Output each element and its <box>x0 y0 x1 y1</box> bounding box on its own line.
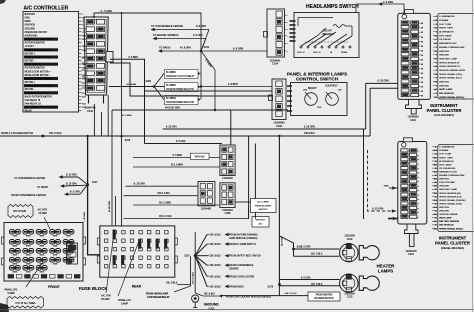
wire 9 .8 BRN to C206 <box>201 86 272 88</box>
wire ground fan branch 4 (FROM CONVENIENCE) <box>195 256 207 266</box>
headlamp switch mech dashes <box>305 41 348 43</box>
wire 150 2 2 BLK long run <box>0 135 370 137</box>
wire ground fan branch 6 (FROM RADIO) <box>195 256 207 287</box>
wire vertical x230.8 into C282 <box>230 110 232 145</box>
fuse block front bottom terminal row <box>8 275 80 279</box>
wire S210 diagonal to 44 DK GRN run (9 .8 BRN) <box>201 51 215 110</box>
cluster gas top tab <box>405 10 414 14</box>
wire S278 to lamp socket 2 (8 .5 GRA) <box>279 279 339 281</box>
wire into cluster second <box>370 87 397 89</box>
wire C232 right to C206 upper (9 .5 BRN) <box>110 59 272 143</box>
wire to lamp socket 2 lower (150 .5 BLK) <box>279 285 339 287</box>
connector C208 12034461 body <box>220 183 235 208</box>
wire vertical to diesel cluster solid <box>363 129 365 219</box>
label 50 2 2 BRN FROM BLOWER SWITCH box <box>251 199 277 213</box>
lamp bulb heater lamp 2 <box>359 276 379 290</box>
connector C206 latch tab <box>269 95 273 101</box>
wire from A/C clutch relay (50 .8 BRN) <box>154 74 164 87</box>
frame corner mark top-left <box>0 0 6 4</box>
wire from blower relay 2 (50 .8 BRN) <box>154 87 164 100</box>
pointer lines to rear fuses <box>106 234 114 293</box>
wire S307 to ground G202 <box>194 256 196 293</box>
wire TO RADIO (B .25 GRA) <box>60 184 64 187</box>
connector C206 cells <box>276 81 282 117</box>
wire S210 to headlamp switch connector C204 (B .8 ORN) <box>201 50 267 52</box>
wire 150 2 0 BLK to ground <box>222 295 308 297</box>
connector 12034481 cells <box>200 184 212 204</box>
connector C208 cells <box>222 185 233 205</box>
node top run junction <box>121 12 123 14</box>
wire 150 2 2 BLK into 12034481 <box>124 195 199 197</box>
wire into diesel cluster thick <box>388 218 398 220</box>
wire C232 pin A to S210 (A .5 GRN) <box>94 13 201 51</box>
cluster diesel pin label list <box>432 146 466 231</box>
rheostat COURTESY <box>326 93 339 106</box>
pointer line to PANEL LPS fuse <box>26 262 43 288</box>
node S217 <box>86 183 89 186</box>
label FROM HEATER BLOWER MOTOR box <box>308 292 340 301</box>
ground symbol G202 <box>192 295 199 302</box>
wire into cluster (8 .25 ORN) <box>366 82 398 84</box>
frame corner mark bottom-left <box>0 303 9 312</box>
cluster gas cells <box>401 21 418 97</box>
cluster gas pin label list <box>433 15 465 99</box>
wire 8 .5 GRA to C282 <box>145 143 223 145</box>
wires A/C controller pins to C232 <box>82 57 86 59</box>
fuse block rear terminals grid <box>105 231 169 268</box>
wire to engine harness (A .8 ORN) <box>201 39 206 52</box>
cluster diesel pin label list box <box>438 145 474 232</box>
wire S307 up <box>194 232 196 256</box>
cluster gas pin numbers column <box>419 23 424 97</box>
wire below blower switch box <box>254 213 256 219</box>
fuse block rear view body <box>100 226 175 277</box>
connector C204 body <box>267 9 285 57</box>
wire ground fan branch 3 (FROM SAFETY BELT SWITCH) <box>195 255 207 257</box>
rheostat BRIGHT <box>305 93 318 106</box>
wire C232 to S281 (50 .8 BRN) <box>109 86 154 88</box>
wire ground fan branch 1 (FROM DAYTIME RUNNING) <box>195 235 207 256</box>
wire dashed to diesel cluster (A .25 GRA) <box>368 150 398 211</box>
cluster diesel plug legs <box>405 224 419 234</box>
wire C232 right leg down <box>107 95 109 136</box>
panel lamps switch box <box>291 83 348 116</box>
label WITHOUT A/C box <box>252 217 269 228</box>
wire C232 tab to C206 lower <box>110 63 272 96</box>
wire 50 1.0 BRN into C282 <box>133 166 220 168</box>
wire vertical rise to cluster 2 <box>369 88 371 136</box>
node S278 <box>278 283 281 286</box>
connector C232 legs <box>88 95 90 104</box>
cluster gas pin label list box <box>438 14 474 100</box>
wire x121.5 full drop to rear fuse block <box>121 13 123 226</box>
wire vertical x255.4 into blower switch box <box>254 144 256 199</box>
pointer line to A/C HTR fuse <box>44 217 50 229</box>
A/C controller U1 pin name rows <box>24 13 87 113</box>
wire vertical to S307 from headlamp relay <box>190 256 192 286</box>
wire C208 right to blower switch label <box>235 201 250 203</box>
node S263 <box>292 248 295 251</box>
wire heater lamp feed vertical 112 2 BLK <box>278 136 280 285</box>
connector C232 side tab <box>106 52 113 63</box>
wire B .25 GRA into 12034481 <box>126 185 199 187</box>
wire FROM CONVENIENCE CENTER (B .5 ORN) <box>64 193 68 196</box>
node S281 <box>153 85 156 88</box>
wire S217/S218 trunk down to rear fuse block (heavy) <box>88 136 100 255</box>
connector C206 body <box>272 79 286 120</box>
connector C204 pin ticks <box>285 15 289 53</box>
wire diagonal branch to S263 <box>279 236 293 249</box>
cluster gas screw hole <box>402 14 407 19</box>
HOT AT ALL TIMES tag <box>7 297 43 309</box>
connector C232 body (tapered) <box>84 17 108 95</box>
instrument panel cluster gas connector body <box>398 13 431 99</box>
connector C282 12034482 body <box>220 145 235 176</box>
frame right edge line <box>472 0 474 312</box>
wire into diesel cluster (34 GRA) <box>389 187 398 189</box>
wire from blower relay 1 (50 .8 BRN) <box>154 86 165 88</box>
wire from low coolant module <box>195 293 203 296</box>
wire S210 down to S281 row <box>200 51 202 99</box>
lamp bulb heater lamp 1 <box>359 246 379 260</box>
wire 150 .8 BLK label <box>177 284 190 286</box>
fuse block rear installed fuses <box>113 230 167 265</box>
wire C232 left leg down <box>93 104 95 136</box>
wire vertical x248.6 <box>248 136 250 219</box>
wire to radio (40 .8 ORN) <box>158 49 162 52</box>
wire 150 2 2 BLK lower <box>124 208 249 219</box>
cluster diesel top tab <box>404 138 413 142</box>
instrument panel cluster diesel connector body <box>398 142 427 225</box>
node S307 ground junction <box>194 254 197 257</box>
wire TO CONVENIENCE CENTER (B .25 GRA) <box>59 175 63 178</box>
fuse block rear side tabs <box>97 238 100 245</box>
headlamp switch contacts and wipers <box>300 26 352 48</box>
A/C controller U1 box <box>23 12 79 113</box>
wire 9 .5 BRN into C282 with WITH A/C tag <box>133 157 220 159</box>
wire drop x115.5 to rear fuse block <box>115 196 117 226</box>
wire headlamps box top to cluster (A .5 GRN) <box>356 4 404 14</box>
frame bottom edge line <box>0 309 474 311</box>
wire 8 .25 ORN long run <box>163 128 366 130</box>
wire 44 B DK GRN <box>112 109 288 111</box>
cluster diesel screw hole <box>402 143 406 147</box>
headlamps switch box <box>294 13 359 58</box>
headlamps switch left pins <box>290 21 296 41</box>
fuse block front fuses grid <box>10 230 74 274</box>
wire A/C controller bottom down <box>101 112 103 136</box>
connector C204 cells <box>276 11 282 55</box>
wire S263 to lamp socket 1 (8 .5 GRA) <box>294 248 340 250</box>
cluster diesel pin ticks <box>417 151 419 217</box>
wire to lamp socket 1 lower (150 .5 BLK) <box>293 249 295 256</box>
connector C204 latch tab <box>264 32 268 38</box>
fuse block front view body <box>4 223 83 282</box>
wire to convenience center (B .8 ORN) <box>201 30 209 52</box>
connector 12034481 body <box>198 182 215 206</box>
wire ground fan branch 5 (FROM CIGAR LIGHTER) <box>195 256 207 277</box>
cluster gas plug legs <box>406 99 422 108</box>
lamp socket heater lamp 1 <box>340 244 358 262</box>
connector C232 cells <box>86 20 104 91</box>
node S210 <box>200 50 203 53</box>
wire 44 B DK GRN drop to rear fuse block <box>111 110 113 226</box>
connector C282 cells <box>222 147 233 174</box>
lamp socket heater lamp 2 <box>340 274 358 292</box>
scan grain overlay <box>0 0 1 1</box>
wire ground fan branch 2 (FROM LH JAMB SWITCH) <box>195 244 207 256</box>
cluster diesel cells <box>401 149 417 219</box>
fuse block front relay column <box>67 243 78 264</box>
wire 50 2 2 BRN into C208 <box>133 204 220 206</box>
panel lamps switch left pins <box>287 86 292 111</box>
wire vertical rise to cluster 1 <box>365 83 367 129</box>
fuse block front side tabs <box>2 237 5 244</box>
node S218 <box>120 135 123 138</box>
HOT IN RUN tag <box>8 205 33 218</box>
